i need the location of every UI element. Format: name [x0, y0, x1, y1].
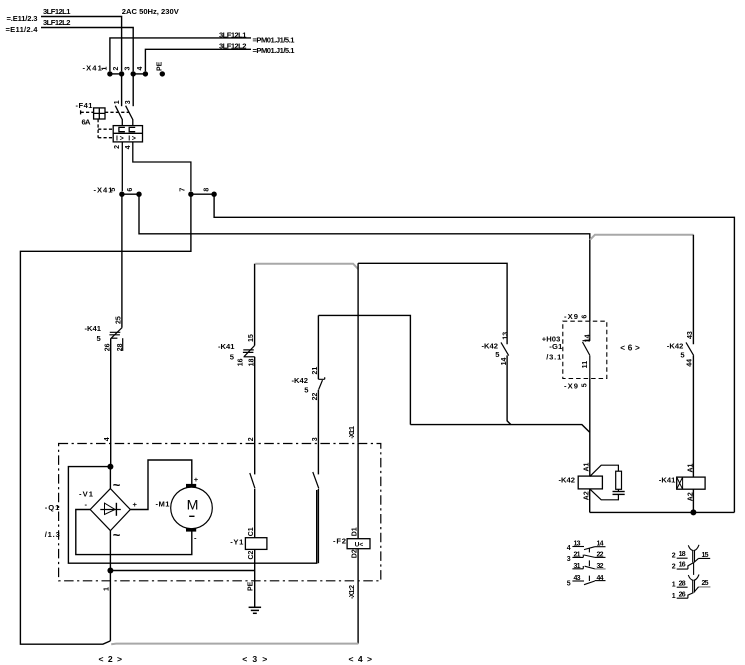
K42 ref row 31-32 wires: [572, 566, 583, 569]
K42 ref row 43-44 wires: [572, 580, 584, 582]
wire F2 down to bottom bus: [357, 549, 359, 644]
K41 ref wire 16 + blade: [677, 563, 694, 570]
svg-text:4: 4: [104, 437, 111, 441]
svg-text:26: 26: [105, 343, 112, 351]
wire Y1 to PE ground: [254, 549, 256, 607]
svg-text:15: 15: [248, 334, 255, 342]
svg-text:21: 21: [574, 552, 581, 559]
wire bus y424.6 to K42 coil: [410, 425, 589, 433]
svg-text:3: 3: [125, 67, 132, 71]
F41 cross-square symbol: [94, 108, 105, 119]
wire X41:2 down to F41 pole 1: [121, 74, 123, 106]
svg-text:21: 21: [312, 367, 319, 375]
terminal X41:5: [119, 192, 124, 197]
svg-text:-K41: -K41: [85, 324, 102, 333]
contact K42 43/44 (NO): [686, 342, 694, 355]
svg-text:~: ~: [113, 528, 121, 543]
svg-text:6: 6: [127, 188, 134, 192]
F41 actuator tick: [80, 110, 82, 114]
svg-text:-Q1: -Q1: [45, 503, 60, 512]
terminal X41:1: [107, 71, 112, 76]
wire switch down to node line: [317, 489, 319, 563]
svg-text:=PM01.J1/5.1: =PM01.J1/5.1: [253, 35, 296, 44]
svg-text:5: 5: [680, 351, 685, 360]
wire X41:3 down to F41 pole 3: [132, 74, 134, 106]
svg-text:+: +: [194, 475, 199, 484]
svg-text:2: 2: [672, 563, 676, 570]
svg-text:5: 5: [97, 334, 102, 343]
voltage relay F2: [347, 539, 370, 549]
terminal X41:2: [119, 71, 124, 76]
gray bottom bus wire: [111, 643, 358, 646]
wire bridge bottom to lower junction and X1 pin1: [109, 531, 111, 641]
svg-text:I: I: [116, 136, 118, 143]
svg-text:15: 15: [702, 552, 709, 559]
jumper X41:1-2: [110, 73, 122, 75]
wire F2 top: [357, 443, 359, 539]
K41 ref wire 15 + blade: [694, 558, 710, 562]
junction dot lower: [107, 568, 113, 574]
jumper X41:7-8: [191, 193, 214, 195]
svg-text:43: 43: [574, 575, 581, 582]
wire bridge minus loop to motor minus: [76, 510, 192, 555]
F41 pole 1 blade: [115, 106, 122, 126]
svg-text:< 3 >: < 3 >: [242, 654, 267, 664]
svg-text:3LF12L1: 3LF12L1: [219, 30, 247, 39]
svg-text:25: 25: [702, 580, 709, 587]
svg-text:4: 4: [137, 67, 144, 71]
coil Y1: [245, 538, 267, 550]
K41 ref fork lower: [688, 575, 699, 581]
svg-text:PE: PE: [157, 61, 164, 71]
K42 ref row 13-14 wires: [572, 546, 584, 548]
svg-text:5: 5: [567, 581, 571, 588]
wire X9:5 down to K42 coil A1: [589, 379, 591, 477]
svg-text:4: 4: [567, 545, 571, 552]
coil K41 (latching): [677, 477, 705, 489]
wire X41:1 to PM01.J1 (3LF12L1): [110, 38, 251, 71]
svg-text:-K42: -K42: [482, 341, 499, 350]
svg-text:-K41: -K41: [659, 475, 676, 484]
F41 heater symbol pole 2: [129, 127, 135, 131]
svg-text:-K41: -K41: [218, 342, 235, 351]
svg-text:32: 32: [597, 563, 604, 570]
wire X41:7 down-left-down to bottom bus: [20, 194, 191, 644]
svg-text:14: 14: [597, 540, 604, 547]
K42 suppressor RC network: [590, 465, 625, 500]
svg-text:A1: A1: [584, 462, 591, 471]
svg-text:-K42: -K42: [559, 475, 576, 484]
svg-text:18: 18: [679, 551, 686, 558]
svg-text:22: 22: [597, 552, 604, 559]
K42 ref row 21-22 contact: [584, 555, 595, 557]
svg-text:13: 13: [574, 541, 581, 548]
wire 3LF12L1 from E11 to X41:2: [41, 17, 122, 72]
svg-text:-K42: -K42: [667, 342, 684, 351]
svg-text:2: 2: [672, 553, 676, 560]
svg-text:D2: D2: [351, 549, 358, 558]
wire 3LF12L2 from E11 to X41:3: [41, 28, 133, 72]
wire X41:6 down-right to X9:6 branch: [139, 194, 590, 321]
gray wire node 15-feed (K41:15 branch to F2 branch): [255, 264, 358, 269]
svg-text:-X9: -X9: [564, 312, 578, 321]
svg-text:3: 3: [567, 556, 571, 563]
ground PE symbol: [249, 607, 262, 613]
svg-text:C1: C1: [248, 527, 255, 536]
svg-text:6: 6: [582, 315, 589, 319]
wire K41 coil A2 down to bus: [692, 489, 694, 512]
jumper X41:5-6: [122, 193, 139, 195]
wire lower junction to PE stem: [110, 570, 254, 572]
switch contact in Q1 box (K42:22 branch): [313, 472, 319, 489]
K42 ref row 21-22 wires: [572, 555, 583, 558]
wire switch to Y1 coil: [254, 489, 256, 538]
svg-text:M: M: [187, 498, 199, 514]
wire F2 branch corner to K42:13 branch: [358, 263, 507, 443]
contact K42 13/14 (NO): [501, 342, 509, 355]
contact K41 15/16/18 (changeover): [243, 346, 255, 357]
wire K41:18 down into Q1 box: [254, 357, 256, 475]
V1 diode triangle: [105, 503, 116, 514]
F41 pole 3 blade: [126, 106, 133, 126]
K41 ref actuator double line upper: [693, 551, 695, 563]
svg-text:+: +: [133, 500, 138, 509]
F41 linkage dashes: [81, 112, 129, 137]
F41 pole outputs 2,4: [121, 142, 123, 191]
breaker F41: [81, 106, 191, 192]
svg-text:44: 44: [597, 575, 604, 582]
jumper X41:3-4: [133, 73, 145, 75]
svg-text:22: 22: [312, 393, 319, 401]
svg-text:5: 5: [582, 383, 589, 387]
svg-text:1: 1: [672, 582, 676, 589]
svg-text:5: 5: [304, 385, 309, 394]
K42 contact cross-reference table: [572, 547, 605, 585]
svg-text:18: 18: [249, 358, 256, 366]
wire X41:8 down-right to top-right bus: [214, 194, 734, 512]
K41 ref wire 26 + blade: [677, 593, 694, 599]
M1 brush bar bottom: [186, 528, 196, 531]
terminal X41:7: [188, 192, 193, 197]
svg-text:11: 11: [582, 361, 589, 369]
svg-text:-V1: -V1: [79, 490, 94, 499]
svg-text:1: 1: [103, 587, 110, 591]
svg-text:2: 2: [113, 67, 120, 71]
svg-text:>: >: [120, 136, 124, 143]
dashed enclosure X9 / G1: [563, 321, 607, 378]
svg-text:16: 16: [679, 562, 686, 569]
svg-text:-: -: [194, 534, 197, 543]
V1 diode lead: [100, 509, 121, 511]
svg-text:< 2 >: < 2 >: [99, 654, 123, 664]
svg-text:3LF12L2: 3LF12L2: [43, 18, 71, 27]
svg-text:-Y1: -Y1: [230, 537, 244, 546]
svg-text:2: 2: [114, 145, 121, 149]
svg-text:1: 1: [101, 67, 108, 71]
svg-text:3LF12L2: 3LF12L2: [219, 41, 247, 50]
svg-text:31: 31: [574, 563, 581, 570]
svg-text:U<: U<: [355, 541, 364, 548]
svg-text:3LF12L1: 3LF12L1: [43, 7, 71, 16]
wire K42:14 down joining bus: [507, 355, 511, 424]
K41 contact cross-reference diagram: [677, 545, 711, 598]
wire K42:43 branch down to K41 coil: [692, 235, 694, 477]
wire bridge plus to motor plus: [130, 460, 192, 510]
svg-text:1: 1: [114, 100, 121, 104]
svg-text:>: >: [132, 136, 136, 143]
svg-text:-F2: -F2: [333, 536, 346, 545]
svg-text:-X1:2: -X1:2: [349, 585, 356, 599]
svg-text:14: 14: [585, 334, 592, 342]
wire X41:4 to PM01.J1 (3LF12L2): [145, 49, 251, 71]
contact K42 21/22 (NC): [318, 377, 324, 389]
svg-text:-K42: -K42: [292, 376, 309, 385]
svg-text:25: 25: [116, 316, 123, 324]
svg-text:43: 43: [687, 331, 694, 339]
svg-text:-M1: -M1: [156, 499, 171, 508]
svg-text:~: ~: [113, 478, 121, 493]
K41 ref wire 18: [677, 557, 688, 559]
wire K41:26 down to bridge junction: [110, 338, 112, 466]
F41 heater symbol pole 1: [119, 127, 125, 131]
svg-text:26: 26: [679, 591, 686, 598]
enclosure Q1 (dash-dot boundary): [59, 444, 381, 581]
svg-text:C2: C2: [248, 550, 255, 559]
svg-text:2: 2: [248, 437, 255, 441]
svg-text:16: 16: [237, 358, 244, 366]
wire K42:21 branch top: [318, 315, 410, 424]
wire X41:5 down to K41:25: [121, 194, 123, 327]
svg-text:44: 44: [686, 359, 693, 367]
svg-text:4: 4: [125, 145, 132, 149]
svg-text:28: 28: [679, 580, 686, 587]
svg-text:8: 8: [203, 188, 210, 192]
wire K41:15 branch down: [254, 264, 256, 346]
svg-text:-X9: -X9: [564, 381, 578, 390]
terminal X41:6: [136, 192, 141, 197]
svg-text:A1: A1: [687, 463, 694, 472]
svg-text:I: I: [128, 136, 130, 143]
svg-text:=PM01.J1/5.1: =PM01.J1/5.1: [253, 46, 296, 55]
svg-text:=E11/2.4: =E11/2.4: [6, 25, 39, 34]
svg-text:-: -: [85, 500, 88, 509]
V1 diode cathode bar: [115, 503, 117, 516]
svg-text:D1: D1: [351, 527, 358, 536]
svg-text:=.E11/2.3: =.E11/2.3: [7, 14, 38, 23]
terminal X41:4: [143, 71, 148, 76]
svg-text:PE: PE: [247, 581, 254, 591]
svg-text:/3.1: /3.1: [546, 353, 562, 362]
svg-text:/1.3: /1.3: [45, 530, 60, 539]
suppressor capacitor: [613, 491, 625, 493]
svg-text:5: 5: [230, 353, 235, 362]
svg-text:7: 7: [180, 188, 187, 192]
K41 ref actuator double line lower: [693, 580, 695, 592]
svg-text:-F41: -F41: [76, 101, 94, 110]
svg-text:-G1: -G1: [549, 342, 563, 351]
svg-text:13: 13: [502, 332, 509, 340]
switch contact in Q1 box (Y1 branch): [250, 473, 255, 489]
terminal X41:PE: [160, 71, 165, 76]
svg-text:3: 3: [312, 437, 319, 441]
contact K41 25/26/28 (changeover): [109, 327, 122, 351]
svg-text:< 6 >: < 6 >: [620, 344, 640, 353]
K41 ref wire 25 (gray) + blade: [699, 586, 711, 588]
wire K42:22 down into Q1 box: [317, 390, 319, 475]
svg-text:1: 1: [672, 593, 676, 600]
wire bottom bus A2 line: [590, 511, 735, 513]
wire K42 coil A2 down to bus: [589, 489, 591, 513]
junction dot bus/K41: [690, 509, 696, 515]
svg-text:-X1:1: -X1:1: [349, 426, 356, 439]
coil K42: [578, 476, 602, 489]
motor M1: [171, 487, 213, 529]
svg-text:5: 5: [110, 188, 117, 192]
node junction upper: wire to bridge + left loop: [109, 467, 111, 489]
svg-text:14: 14: [501, 358, 508, 366]
F41 overload/trip box: [113, 126, 142, 142]
gray wire X9 branch to K42:43 branch: [590, 235, 694, 240]
svg-text:28: 28: [117, 343, 124, 351]
svg-text:3: 3: [125, 100, 132, 104]
K41 ref fork top: [688, 545, 699, 551]
svg-text:6A: 6A: [82, 118, 92, 127]
K41 ref wire 28: [677, 586, 688, 588]
K42 ref row 43-44 contact: [588, 576, 590, 581]
K42 ref row 31-32 contact: [588, 560, 590, 566]
suppressor resistor: [616, 471, 622, 489]
M1 - mark under M: [189, 515, 194, 517]
svg-text:5: 5: [495, 350, 500, 359]
switch G1 14/11 (NO) inside box: [583, 321, 590, 378]
K41 latch X box: [677, 477, 683, 489]
terminal X41:8: [211, 192, 216, 197]
svg-text:2AC 50Hz, 230V: 2AC 50Hz, 230V: [122, 7, 180, 16]
rectifier V1 (bridge): [90, 489, 130, 531]
svg-text:< 4 >: < 4 >: [349, 654, 373, 664]
M1 brush bar top: [186, 484, 196, 488]
K41 ref stem: [693, 562, 695, 575]
K42 ref row 13-14 contact: [584, 547, 595, 550]
junction dot upper: [107, 464, 113, 470]
terminal X41:3: [131, 71, 136, 76]
